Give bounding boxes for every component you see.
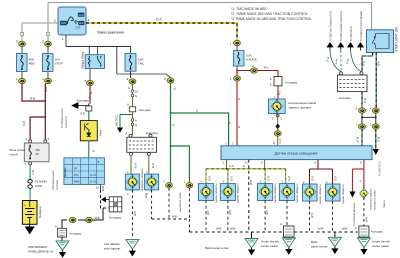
- wire relay to connector: [89, 69, 91, 81]
- connector block mid: [127, 137, 157, 152]
- secondary W-B bus: [152, 218, 190, 220]
- wire to instrument ground: [61, 237, 63, 241]
- svg-text:L-W: L-W: [31, 170, 35, 175]
- svg-text:G: G: [196, 109, 198, 113]
- connector below STOP fuse: [45, 78, 52, 83]
- wire diode to ecu: [88, 141, 90, 158]
- svg-text:To ABS and Traction ECU: To ABS and Traction ECU: [328, 11, 332, 41]
- connector below gauge fuse: [234, 76, 241, 81]
- wire W-B chain from colodka down to instrument ground: [78, 212, 103, 220]
- svg-text:To ABS ECU: To ABS ECU: [349, 26, 353, 41]
- svg-text:To Engine Control Module: To Engine Control Module: [359, 11, 363, 41]
- svg-text:Back: Back: [311, 240, 318, 244]
- svg-text:Колодка: Колодка: [286, 81, 298, 85]
- svg-text:G-O: G-O: [278, 139, 282, 144]
- svg-text:W-B: W-B: [230, 227, 236, 231]
- svg-text:задние габариты: задние габариты: [215, 183, 218, 203]
- svg-text:Батарея: Батарея: [38, 206, 42, 218]
- wire bar drop red right: [363, 160, 365, 169]
- wire block to front lamp left: [130, 156, 132, 175]
- wire TAIL fuse bottom bus: [117, 74, 171, 78]
- svg-text:Taillight Relay: Taillight Relay: [81, 51, 85, 69]
- svg-text:G: G: [135, 94, 137, 98]
- svg-text:G-O: G-O: [230, 176, 233, 181]
- wire stop sw output jog: [362, 53, 373, 73]
- svg-text:Колодка: Колодка: [110, 216, 122, 220]
- svg-text:G-O: G-O: [133, 162, 137, 168]
- svg-text:G-O: G-O: [288, 176, 291, 181]
- connector chain 1: [69, 217, 76, 222]
- connector block right: [337, 75, 367, 92]
- svg-text:номерного знака: номерного знака: [374, 190, 377, 210]
- svg-text:W-B: W-B: [266, 210, 269, 215]
- ground under pedal 1: [288, 236, 290, 239]
- svg-text:телей: телей: [10, 153, 18, 157]
- svg-text:W-B: W-B: [101, 186, 105, 191]
- svg-text:2: 2: [54, 19, 56, 23]
- rear light warning lamp: [269, 99, 286, 114]
- svg-text:Колодка: Колодка: [77, 99, 89, 103]
- crosslink wires: [362, 113, 376, 124]
- svg-text:STOP: STOP: [55, 62, 63, 66]
- battery: [22, 201, 37, 225]
- connector pair lower: [359, 124, 366, 129]
- svg-text:Лампы: Лампы: [383, 200, 386, 208]
- svg-text:W-B: W-B: [216, 227, 222, 231]
- svg-text:GAUGE: GAUGE: [246, 58, 257, 62]
- combination meter ecu grid: [64, 158, 105, 185]
- svg-text:G: G: [228, 122, 232, 124]
- connector square on tail chain: [129, 107, 135, 112]
- svg-text:задние габариты: задние габариты: [319, 184, 322, 204]
- rear lamp 6: [326, 184, 341, 201]
- svg-text:G-W: G-W: [377, 136, 380, 142]
- green branch to engine ctrl arrow: [120, 115, 133, 128]
- turn signal flasher block: [24, 143, 49, 162]
- wire gauge conn to fuse: [236, 46, 238, 51]
- svg-text:R-L: R-L: [278, 90, 282, 95]
- wire maroon branch to flasher pin1: [30, 117, 45, 140]
- svg-text:Lock ECU: Lock ECU: [64, 116, 68, 128]
- ground under pedal right: [363, 237, 365, 238]
- front marker lamp left: [125, 174, 139, 190]
- wire: STOP conn to fuse: [47, 47, 49, 54]
- svg-text:To Wireless Door: To Wireless Door: [60, 108, 64, 128]
- svg-text:подсветка заднего: подсветка заднего: [370, 188, 373, 210]
- svg-text:#2: #2: [36, 152, 40, 156]
- left arrow connector: [72, 103, 89, 109]
- wire ignition to relay and tail fuse: [66, 35, 131, 53]
- ground back panel 1: [245, 239, 258, 255]
- svg-text:THL: THL: [74, 174, 79, 177]
- svg-text:*1: TMC MADE W/ ABS: *1: TMC MADE W/ ABS: [231, 7, 267, 11]
- wire down to main bus: [188, 219, 190, 232]
- rear lamp 3: [258, 184, 273, 201]
- wire dashed front lamp right down: [151, 190, 153, 219]
- svg-text:приборы: приборы: [64, 167, 67, 177]
- wire to abs ecu arrow down: [375, 129, 377, 149]
- wire block down: [361, 92, 363, 108]
- svg-text:INSTRUMENT: INSTRUMENT: [28, 245, 48, 249]
- svg-text:W-B: W-B: [249, 180, 253, 185]
- wire: ABS conn to fuse: [21, 47, 23, 54]
- svg-text:PANEL BRACE LH: PANEL BRACE LH: [28, 250, 53, 254]
- wire bar drop right maroon: [317, 160, 319, 169]
- svg-text:R-L: R-L: [264, 66, 269, 70]
- connector block pin top: [129, 134, 132, 137]
- connector above gauge fuse: [234, 40, 241, 45]
- wire bar drop left1: [226, 160, 228, 169]
- svg-text:G-B: G-B: [80, 112, 85, 116]
- colodka square instrument: [58, 228, 67, 237]
- wire maroon relay output down: [89, 86, 90, 106]
- wire bar drop left2: [264, 160, 266, 169]
- wire tail chain down: [132, 84, 134, 135]
- svg-text:*2: TMMK MADE W/O ABS TRACTION: *2: TMMK MADE W/O ABS TRACTION CONTROL: [231, 12, 308, 16]
- wire into diode box: [88, 111, 90, 121]
- svg-text:W-B: W-B: [172, 215, 177, 218]
- svg-text:Left radiator: Left radiator: [104, 242, 120, 246]
- connector green left: [166, 183, 173, 188]
- svg-text:G-O: G-O: [209, 176, 212, 181]
- svg-text:G-O: G-O: [268, 176, 271, 181]
- fusible link FL MAIN: [28, 180, 32, 184]
- svg-text:задние габариты: задние габариты: [237, 183, 240, 203]
- main W-B bus left part: [189, 231, 283, 233]
- svg-text:W-B: W-B: [365, 217, 368, 222]
- wire L-W to fusible link: [29, 165, 31, 179]
- svg-text:О-\-О: О-\-О: [90, 181, 96, 184]
- svg-text:заднего фонаря: заднего фонаря: [289, 106, 312, 110]
- lamp bottom pin: [276, 114, 279, 117]
- svg-text:задние габариты: задние габариты: [342, 184, 345, 204]
- svg-text:G: G: [174, 87, 176, 91]
- connector on ABS fuse feed: [19, 41, 26, 46]
- stop light switch internals: [372, 34, 389, 49]
- wire red to warning lamp: [237, 71, 278, 77]
- svg-text:(W/ TRC): (W/ TRC): [115, 115, 119, 126]
- svg-text:RAM: RAM: [74, 181, 79, 184]
- ignition switch internals: [60, 21, 67, 25]
- svg-text:A: A: [355, 227, 357, 231]
- wire: gray drop to fuse STOP: [47, 3, 49, 42]
- svg-text:Under the left: Under the left: [261, 240, 279, 244]
- diamond connector: [275, 124, 280, 130]
- svg-text:Колодка: Колодка: [146, 131, 158, 135]
- wire licence lamp down dashed: [363, 197, 365, 226]
- wire ecu to colodka dashed: [100, 184, 102, 189]
- svg-text:A: A: [126, 132, 128, 136]
- svg-text:Колодка: Колодка: [70, 232, 82, 236]
- wires arrows to block curved: [330, 51, 341, 72]
- ground left radiator: [126, 240, 139, 256]
- svg-text:To Daytime Running: To Daytime Running: [352, 202, 356, 226]
- svg-text:G: G: [89, 92, 93, 94]
- arrow to abs ecu: [373, 149, 379, 155]
- svg-text:G-W: G-W: [364, 97, 367, 103]
- svg-text:H: H: [243, 164, 245, 168]
- svg-text:О-\-О: О-\-О: [90, 174, 96, 177]
- fuse STOP 15A: [43, 54, 54, 72]
- svg-text:FL MAIN: FL MAIN: [35, 180, 47, 184]
- svg-text:W-R: W-R: [44, 86, 48, 92]
- svg-text:G: G: [135, 123, 137, 127]
- main W-B bus right part: [294, 231, 358, 233]
- svg-text:W-B: W-B: [145, 193, 148, 198]
- connector below relay: [87, 80, 94, 85]
- rear lamp 1: [198, 184, 213, 201]
- svg-text:AM2: AM2: [61, 21, 67, 25]
- inline pin circles upper: [131, 90, 134, 93]
- relay internals: [88, 56, 100, 67]
- svg-text:G: G: [172, 124, 176, 126]
- svg-text:W-B: W-B: [134, 211, 137, 216]
- arrow daytime down: [349, 192, 355, 198]
- block top pins: [340, 72, 343, 75]
- flasher bottom pin: [29, 162, 32, 165]
- svg-text:R-B: R-B: [22, 121, 26, 126]
- svg-text:ACC: ACC: [79, 13, 85, 17]
- svg-text:W-B: W-B: [311, 213, 314, 218]
- wire block to front lamp right: [148, 156, 150, 175]
- svg-text:G-O: G-O: [151, 162, 155, 168]
- svg-text:Контрольная лампа: Контрольная лампа: [289, 101, 317, 105]
- connector on red horizontal: [251, 68, 258, 73]
- wire ABS fuse to connector: [21, 72, 23, 79]
- svg-text:+: +: [24, 204, 26, 208]
- svg-text:G-O: G-O: [335, 176, 338, 181]
- junction square right: [47, 33, 50, 36]
- wire maroon STOP fuse down to flasher: [44, 84, 46, 140]
- wire dashed from front lamp left to ground: [131, 190, 133, 238]
- svg-text:A: A: [89, 96, 91, 100]
- svg-text:W-B: W-B: [95, 216, 101, 220]
- wire green branch to bar: [171, 113, 229, 146]
- svg-text:Back panel center: Back panel center: [205, 246, 229, 250]
- svg-text:4: 4: [88, 19, 90, 23]
- rear lamp 2: [220, 184, 235, 201]
- svg-text:TAIL: TAIL: [138, 62, 144, 66]
- abs arrows up group: [327, 43, 333, 51]
- svg-text:A: A: [127, 103, 129, 107]
- fuse ABS 40A: [17, 54, 28, 72]
- wire maroon horizontal rear group: [310, 168, 333, 170]
- wire stop sw output 2: [375, 53, 377, 109]
- svg-text:W-B: W-B: [378, 61, 381, 66]
- svg-text:Противоугонная: Противоугонная: [51, 170, 55, 190]
- left arrow at colodka: [102, 197, 109, 202]
- wire drops to rear lamps: [206, 169, 286, 184]
- svg-text:side support: side support: [104, 247, 121, 251]
- wire green main from tail connector: [170, 83, 172, 183]
- ground instrument panel: [56, 241, 69, 257]
- flasher pin circles: [29, 140, 32, 143]
- arrow down green branch: [117, 128, 123, 133]
- connector on STOP fuse feed: [45, 41, 52, 46]
- wire red split daytime: [353, 168, 364, 170]
- svg-text:G-W: G-W: [363, 60, 366, 66]
- svg-text:3.0W: 3.0W: [35, 184, 42, 188]
- svg-text:система: система: [56, 180, 59, 190]
- svg-text:Датчик отказа освещения: Датчик отказа освещения: [275, 152, 318, 156]
- wire red to licence lamp: [363, 169, 365, 189]
- connector pair upper: [359, 108, 366, 113]
- svg-text:W-B: W-B: [342, 227, 348, 231]
- svg-text:задние габариты: задние габариты: [274, 183, 277, 203]
- svg-text:Колодка: Колодка: [139, 108, 151, 112]
- colodka grid box bottom left: [109, 197, 122, 212]
- svg-text:*3 TMMK MADE W/ ABS AND TRACTI: *3 TMMK MADE W/ ABS AND TRACTION CONTROL: [231, 17, 312, 21]
- wire dashed green conns down: [169, 188, 189, 219]
- svg-text:G-W: G-W: [357, 136, 360, 142]
- wire link to battery: [29, 189, 31, 201]
- svg-text:ST2: ST2: [76, 26, 81, 30]
- ignition switch block: [58, 7, 86, 35]
- svg-text:10: 10: [135, 90, 139, 94]
- svg-text:A: A: [135, 119, 137, 123]
- wire red square to lamp: [277, 86, 279, 99]
- wire lamp4 into square: [287, 225, 289, 227]
- colodka square on lamp wire: [274, 77, 282, 86]
- svg-text:G-Y: G-Y: [156, 18, 163, 22]
- svg-text:To ABS Actuator and ECU: To ABS Actuator and ECU: [339, 11, 343, 41]
- svg-text:R-B: R-B: [30, 97, 35, 101]
- connector square on relay wire: [86, 106, 92, 111]
- svg-text:2: 2: [42, 40, 44, 44]
- svg-text:G-O: G-O: [312, 176, 315, 181]
- wire drops to lamps 5 6: [310, 169, 333, 184]
- svg-text:G: G: [93, 149, 95, 153]
- colodka square right: [359, 226, 369, 237]
- svg-text:R: R: [237, 126, 241, 128]
- fuse GAUGE 10A: [234, 51, 245, 67]
- svg-text:R: R: [237, 98, 241, 100]
- svg-text:2: 2: [16, 40, 18, 44]
- wire maroon ABS fuse branch: [22, 84, 45, 101]
- wire G-W to bar: [361, 129, 363, 146]
- svg-text:Замок зажигания: Замок зажигания: [97, 31, 124, 35]
- stop light switch box: [367, 30, 394, 53]
- wire G-Y dashed from ignition to gauge fuse: [86, 23, 237, 41]
- connector chain 2: [86, 217, 93, 222]
- inline pin circles lower: [131, 119, 134, 122]
- svg-text:G: G: [128, 86, 130, 90]
- svg-text:IG2: IG2: [79, 21, 84, 25]
- wire red gauge to bar: [236, 81, 238, 146]
- wire: battery feed top gray: [48, 3, 372, 30]
- svg-text:задние габариты: задние габариты: [296, 183, 299, 203]
- wire green branch right lamp conn: [171, 146, 190, 183]
- svg-text:STOP LIGHT SW: STOP LIGHT SW: [395, 27, 399, 52]
- wire: gray feed to ignition AM2: [22, 23, 58, 41]
- connector green right: [186, 183, 193, 188]
- svg-text:A: A: [280, 222, 282, 226]
- svg-text:W-B: W-B: [318, 227, 324, 231]
- taillight relay box: [85, 55, 104, 69]
- rear lamp 4: [279, 184, 294, 201]
- svg-text:W-B: W-B: [207, 210, 210, 215]
- svg-text:To ABS ECU: To ABS ECU: [378, 161, 382, 176]
- ground back panel 1 drop: [251, 232, 253, 238]
- ground back panel 2 drop: [334, 232, 336, 237]
- wire STOP fuse to connector: [47, 72, 49, 79]
- junction square left: [21, 33, 24, 36]
- connector below TAIL fuse: [129, 79, 136, 84]
- licence plate lamp: [359, 187, 369, 199]
- connector oval on lamp wire: [274, 131, 281, 136]
- svg-text:Under the left: Under the left: [372, 240, 390, 244]
- svg-text:center pedal: center pedal: [372, 244, 389, 248]
- svg-text:Блок указа-: Блок указа-: [10, 148, 26, 152]
- wire W-B long from bar: [248, 160, 250, 232]
- wire lamp down to bar: [277, 114, 279, 146]
- wires lamps 5 6 to bus: [310, 201, 333, 232]
- svg-text:panel center: panel center: [311, 245, 328, 249]
- svg-text:Колодка: Колодка: [371, 230, 383, 234]
- block bottom pins: [130, 153, 133, 156]
- connector on green tail wire: [167, 78, 174, 83]
- svg-text:номерного знака: номерного знака: [179, 192, 182, 212]
- light failure sensor bar: [221, 146, 372, 160]
- front marker lamp right: [145, 174, 159, 190]
- connector below ABS fuse: [19, 78, 26, 83]
- ground back panel 2: [328, 237, 341, 253]
- fuse TAIL 15A: [125, 53, 136, 71]
- svg-text:Колодка: Колодка: [339, 96, 351, 100]
- colodka square mid bus: [284, 226, 295, 237]
- svg-text:A: A: [55, 225, 57, 229]
- svg-text:W-B: W-B: [229, 210, 232, 215]
- svg-text:УР: УР: [74, 168, 78, 171]
- wire relay coil pin up: [89, 47, 97, 55]
- svg-text:ABS: ABS: [29, 62, 35, 66]
- ground arrow below battery: [26, 224, 34, 233]
- wire gauge fuse bottom junction: [236, 66, 238, 71]
- diode unit yellow box: [80, 121, 97, 141]
- svg-text:G-O: G-O: [229, 164, 234, 168]
- wires rear lamps to bus: [206, 201, 287, 233]
- wire drop x116.8: [116, 47, 118, 75]
- svg-text:center pedal: center pedal: [261, 244, 278, 248]
- svg-text:передние габариты: передние габариты: [140, 167, 144, 191]
- wire G-O horizontal rear lamps: [206, 168, 286, 170]
- rear lamp 5: [303, 184, 318, 201]
- svg-text:Реле: Реле: [99, 129, 103, 136]
